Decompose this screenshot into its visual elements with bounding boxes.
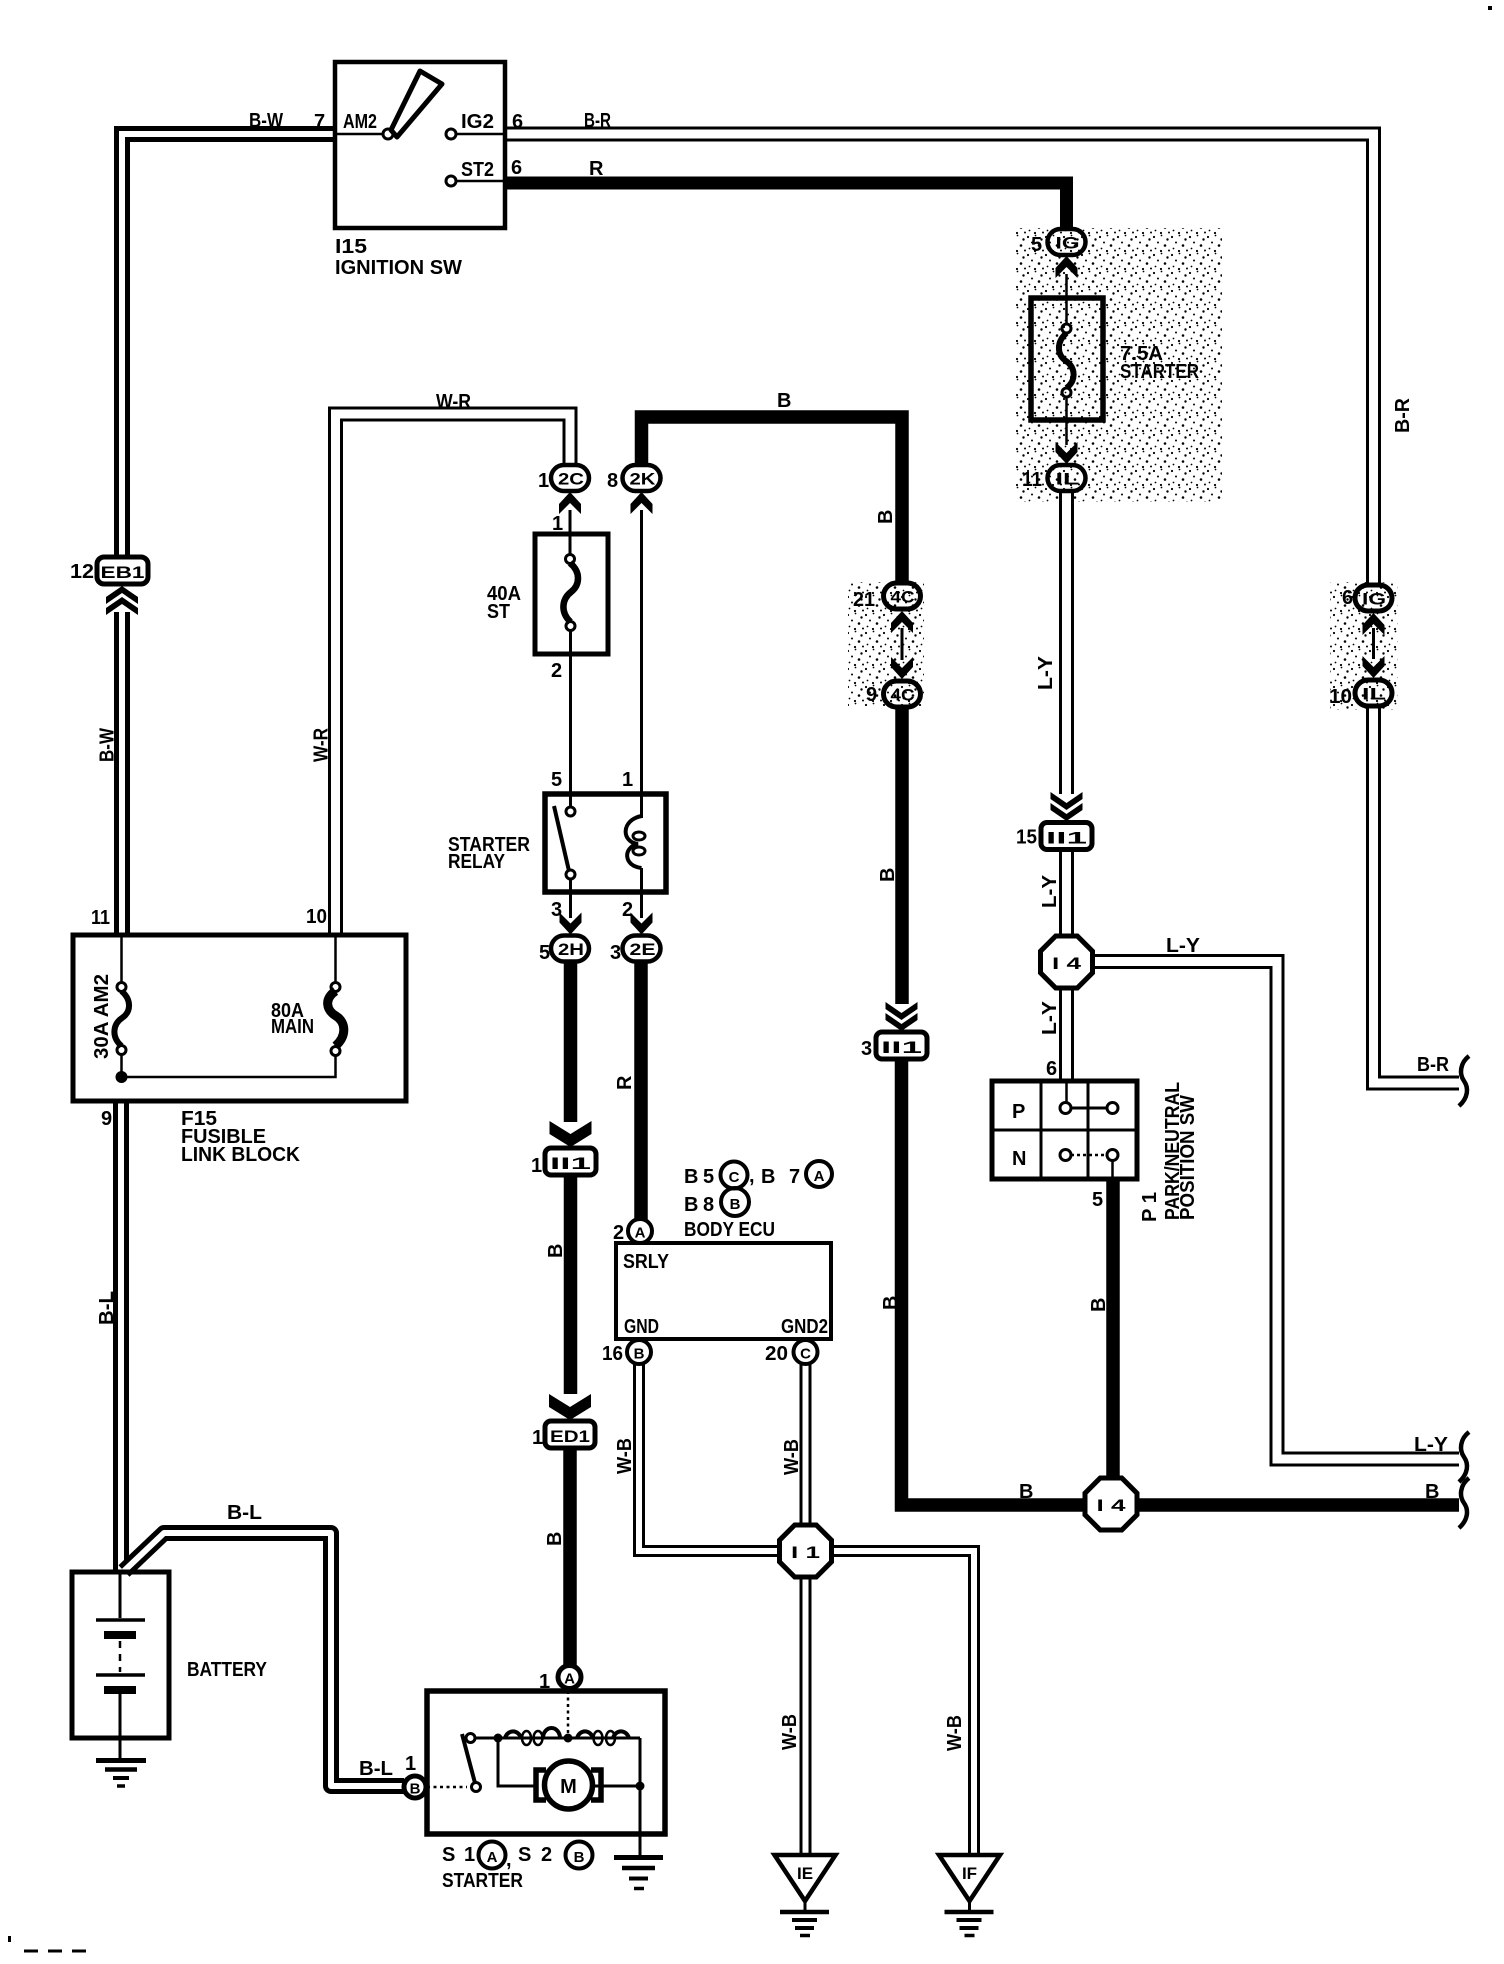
stray mark top right <box>1488 6 1492 10</box>
svg-text:16: 16 <box>602 1343 623 1365</box>
svg-text:6: 6 <box>1342 587 1353 609</box>
starter box <box>427 1691 665 1834</box>
connector oval IG right <box>1355 585 1392 611</box>
svg-text:IE: IE <box>797 1864 813 1883</box>
starter relay box <box>545 794 666 892</box>
svg-text:30A AM2: 30A AM2 <box>91 974 113 1059</box>
svg-text:1: 1 <box>405 1753 416 1775</box>
wire B thick: I4 right to edge <box>1137 1498 1459 1512</box>
svg-text:8: 8 <box>703 1194 714 1216</box>
svg-text:4C: 4C <box>891 687 915 705</box>
svg-text:STARTER: STARTER <box>1120 361 1199 383</box>
svg-text:S: S <box>518 1844 531 1866</box>
junction I1 octagon <box>780 1525 832 1577</box>
svg-text:POSITION SW: POSITION SW <box>1177 1095 1199 1220</box>
svg-text:B: B <box>875 510 897 524</box>
svg-text:1: 1 <box>538 470 549 492</box>
ground triangle IF <box>939 1855 1000 1901</box>
arrow down into 2E <box>631 913 653 935</box>
svg-text:5: 5 <box>1031 234 1042 256</box>
terminal ST2 <box>456 180 505 183</box>
continuation hook B <box>1459 1478 1469 1528</box>
connector II1 on B line mid <box>550 1121 592 1147</box>
ignition switch I15 box <box>335 62 505 228</box>
wire thin: relay switch to pin 3 <box>569 879 572 918</box>
svg-text:,: , <box>749 1165 755 1187</box>
wire B-W hollow: ignition AM2 to EB1 <box>122 134 335 557</box>
P/N switch pin 6 stub <box>1065 1081 1068 1102</box>
svg-text:1: 1 <box>539 1671 550 1693</box>
svg-text:B: B <box>410 1781 421 1798</box>
svg-text:B: B <box>777 390 791 412</box>
svg-text:6: 6 <box>512 111 523 133</box>
svg-text:LINK BLOCK: LINK BLOCK <box>181 1144 301 1166</box>
svg-text:W-B: W-B <box>779 1714 801 1750</box>
svg-text:5: 5 <box>551 769 562 791</box>
wire B thick: II1 to ED1 <box>564 1175 578 1394</box>
connector II1 on L-Y line <box>1051 792 1083 821</box>
connector oval IG top <box>1048 229 1086 255</box>
svg-text:I15: I15 <box>335 236 367 258</box>
svg-text:B: B <box>1019 1481 1033 1503</box>
svg-text:L-Y: L-Y <box>1166 935 1201 957</box>
svg-text:I 1: I 1 <box>791 1543 820 1562</box>
svg-text:W-B: W-B <box>614 1438 636 1474</box>
svg-text:A: A <box>635 1225 646 1242</box>
wire W-B hollow: I1 right and down to ground IF <box>830 1551 974 1854</box>
wire W-R hollow: fusible link pin 10 up and over to 2C <box>336 414 571 934</box>
svg-text:B: B <box>544 1532 566 1546</box>
svg-text:ST2: ST2 <box>461 159 494 181</box>
svg-text:IG: IG <box>1362 591 1386 609</box>
wire B-R hollow: IL connector down and right to edge <box>1374 707 1460 1083</box>
motor M <box>536 1770 546 1800</box>
connector oval 2C <box>551 465 589 491</box>
svg-text:11: 11 <box>91 907 110 929</box>
svg-text:1: 1 <box>531 1155 542 1177</box>
park/neutral position switch P1 box <box>992 1081 1137 1179</box>
connector oval IL right <box>1355 680 1392 706</box>
wire B thick: II1 down then right to junction I4 <box>902 1058 1086 1505</box>
svg-text:I 4: I 4 <box>1097 1496 1127 1515</box>
node junction in F15 <box>116 1071 128 1083</box>
svg-text:2K: 2K <box>630 471 656 489</box>
dotted link B to switch <box>427 1786 467 1789</box>
svg-text:B-L: B-L <box>227 1502 262 1524</box>
node coil junctions <box>494 1734 503 1743</box>
svg-text:20: 20 <box>765 1343 788 1365</box>
continuation hook L-Y <box>1459 1432 1469 1482</box>
wire B-R hollow: ignition IG2 right and down to IG connector <box>505 134 1374 584</box>
battery box <box>72 1572 169 1738</box>
fuse 7.5A STARTER box <box>1031 298 1103 420</box>
stipple patch around right IG-IL connectors <box>1330 582 1398 710</box>
body ECU pin 20 circle C <box>794 1340 818 1364</box>
relay coil <box>640 794 643 816</box>
svg-text:6: 6 <box>511 157 522 179</box>
svg-text:GND2: GND2 <box>781 1316 828 1338</box>
svg-text:A: A <box>487 1849 498 1866</box>
svg-text:B-R: B-R <box>1392 397 1414 433</box>
stipple patch around 7.5A starter fuse <box>1016 228 1222 502</box>
svg-text:1: 1 <box>622 769 633 791</box>
svg-text:S: S <box>442 1844 455 1866</box>
wire thin: 2K to starter relay pin 1 <box>640 510 643 818</box>
svg-text:7: 7 <box>314 111 325 133</box>
svg-text:B-W: B-W <box>97 728 119 762</box>
relay switch <box>569 794 572 807</box>
svg-text:P 1: P 1 <box>1139 1192 1161 1222</box>
svg-text:2H: 2H <box>558 941 584 959</box>
svg-text:3: 3 <box>610 942 621 964</box>
svg-text:21: 21 <box>853 589 875 611</box>
arrow down into IL <box>1056 442 1078 464</box>
svg-text:GND: GND <box>624 1316 659 1338</box>
svg-text:II1: II1 <box>550 1154 591 1173</box>
P/N contact row N <box>1060 1150 1071 1161</box>
svg-text:N: N <box>1012 1148 1026 1170</box>
svg-text:3: 3 <box>551 899 562 921</box>
svg-text:C: C <box>729 1169 740 1186</box>
svg-text:10: 10 <box>1329 686 1352 708</box>
connector EB1 <box>97 557 148 584</box>
continuation hook B-R <box>1459 1056 1469 1106</box>
connector ED1 <box>549 1394 591 1420</box>
svg-text:W-B: W-B <box>944 1715 966 1751</box>
svg-text:MAIN: MAIN <box>271 1016 314 1038</box>
svg-text:R: R <box>614 1075 636 1090</box>
fuse 7.5A element <box>1065 274 1068 325</box>
arrow down into 2H <box>560 913 582 935</box>
wire F15 internal <box>122 1055 336 1077</box>
svg-text:3: 3 <box>861 1038 872 1060</box>
svg-text:B-R: B-R <box>584 110 611 132</box>
svg-text:B-W: B-W <box>249 110 283 132</box>
svg-text:B-L: B-L <box>359 1758 393 1780</box>
svg-text:7: 7 <box>789 1166 800 1188</box>
P/N contact row P <box>1060 1103 1071 1114</box>
junction I4 octagon <box>1041 936 1093 988</box>
svg-text:9: 9 <box>101 1108 112 1130</box>
svg-text:B: B <box>761 1166 775 1188</box>
body ECU box <box>616 1243 831 1339</box>
ground at battery <box>119 1738 122 1758</box>
wire B-W hollow: EB1 to fusible link block pin 11 <box>114 612 130 934</box>
svg-text:5: 5 <box>1092 1189 1103 1211</box>
svg-text:STARTER: STARTER <box>442 1870 523 1892</box>
svg-text:BATTERY: BATTERY <box>187 1659 268 1681</box>
fuse 40A ST box <box>535 534 608 654</box>
svg-text:B: B <box>880 1296 902 1310</box>
svg-text:8: 8 <box>607 470 618 492</box>
svg-text:II1: II1 <box>881 1038 922 1057</box>
wire thin: 2C to 40A ST fuse <box>569 510 572 555</box>
svg-text:10: 10 <box>306 906 327 928</box>
svg-text:5: 5 <box>703 1166 714 1188</box>
svg-text:2C: 2C <box>558 471 584 489</box>
svg-text:IL: IL <box>1362 686 1386 704</box>
svg-text:I 4: I 4 <box>1052 954 1082 973</box>
fuse 30A AM2 <box>120 937 123 983</box>
svg-text:2: 2 <box>541 1844 552 1866</box>
connector II1 on B line right <box>886 1002 918 1031</box>
svg-text:IL: IL <box>1056 471 1080 489</box>
wire R thick: 2E down to body ECU SRLY pin 2 <box>634 961 648 1220</box>
starter terminal B circle <box>404 1776 426 1798</box>
double-head arrow between IG and IL right <box>1372 628 1375 659</box>
svg-text:6: 6 <box>1046 1058 1057 1080</box>
connector oval 2H <box>551 936 589 962</box>
body ECU pin 2 circle A <box>628 1219 652 1243</box>
svg-text:15: 15 <box>1016 827 1037 849</box>
svg-text:5: 5 <box>539 942 550 964</box>
svg-text:A: A <box>814 1168 825 1185</box>
svg-text:2: 2 <box>622 899 633 921</box>
svg-text:L-Y: L-Y <box>1414 1434 1449 1456</box>
svg-text:W-B: W-B <box>781 1439 803 1475</box>
svg-text:B: B <box>730 1196 741 1213</box>
fuse 80A MAIN <box>331 1047 340 1056</box>
wire L-Y hollow: IL connector down to II1 <box>1059 491 1074 794</box>
svg-text:II1: II1 <box>1046 829 1087 848</box>
wire L-Y hollow: I4 right and down to edge <box>1091 962 1459 1460</box>
svg-text:IGNITION SW: IGNITION SW <box>335 257 462 279</box>
wire B-L hollow: fusible link pin 9 to battery <box>113 1101 129 1570</box>
svg-text:IG2: IG2 <box>461 111 494 133</box>
ignition key wedge <box>391 71 442 137</box>
svg-text:IG: IG <box>1056 235 1080 253</box>
svg-text:W-R: W-R <box>436 391 471 413</box>
svg-text:P: P <box>1012 1101 1025 1123</box>
connector oval 2K <box>623 465 661 491</box>
svg-text:B: B <box>634 1346 645 1363</box>
wire B thick: 4C down to II1 <box>895 708 909 1004</box>
svg-text:R: R <box>589 158 604 180</box>
svg-text:L-Y: L-Y <box>1035 655 1057 690</box>
stipple patch around 4C junction connectors <box>848 582 924 706</box>
svg-text:ST: ST <box>487 601 510 623</box>
wire W-B hollow: ECU GND pin 16 down and right to I1 <box>639 1363 781 1551</box>
junction I4 octagon second <box>1085 1478 1137 1530</box>
svg-text:9: 9 <box>866 684 877 706</box>
wire B thick: ED1 down to starter terminal A <box>563 1448 577 1666</box>
wire W-B hollow: ECU GND2 pin 20 down to I1 <box>800 1363 812 1527</box>
wire R thick: ignition ST2 to IG connector <box>505 183 1067 229</box>
stray marks bottom left <box>8 1936 11 1942</box>
svg-text:M: M <box>560 1776 577 1798</box>
svg-text:2: 2 <box>613 1222 624 1244</box>
node motor-right junction <box>636 1782 645 1791</box>
arrow up into IG <box>1056 256 1078 278</box>
svg-text:BODY ECU: BODY ECU <box>684 1219 775 1241</box>
starter coil <box>475 1737 640 1740</box>
starter terminal A circle <box>558 1666 581 1689</box>
svg-text:IF: IF <box>962 1864 977 1883</box>
wire L-Y hollow: II1 down to junction I4 <box>1059 850 1074 937</box>
double-head arrow between 4C connectors <box>901 628 904 660</box>
wire B thick: 2H down to II1 <box>564 961 578 1122</box>
ground at starter <box>639 1786 642 1855</box>
svg-text:,: , <box>506 1849 512 1871</box>
svg-text:EB1: EB1 <box>101 563 145 582</box>
svg-text:ED1: ED1 <box>550 1427 590 1446</box>
svg-text:AM2: AM2 <box>343 111 377 133</box>
svg-text:L-Y: L-Y <box>1039 1000 1061 1035</box>
svg-text:1: 1 <box>532 1427 543 1449</box>
svg-text:2: 2 <box>551 660 562 682</box>
svg-text:W-R: W-R <box>311 728 333 762</box>
connector oval IL top <box>1048 465 1086 491</box>
svg-text:L-Y: L-Y <box>1039 874 1061 908</box>
svg-text:B: B <box>1425 1481 1439 1503</box>
wire thin: 40A ST fuse to starter relay pin 5 <box>569 630 572 807</box>
wire B thick: park-neutral pin 5 down to I4 <box>1106 1179 1120 1479</box>
terminal IG2 <box>456 133 505 136</box>
P/N switch pin 5 stub <box>1111 1161 1114 1179</box>
svg-text:1: 1 <box>552 513 563 535</box>
fusible link block F15 box <box>73 935 406 1101</box>
wire B thick: 2K up over and down to 4C <box>642 417 903 583</box>
body ECU pin 16 circle B <box>627 1340 651 1364</box>
wire coil end down to motor right <box>639 1738 642 1786</box>
connector oval 4C upper <box>884 583 921 609</box>
starter switch <box>466 1734 475 1743</box>
svg-text:B: B <box>877 868 899 882</box>
dotted link A to coil tap <box>567 1691 570 1733</box>
wire to motor left <box>498 1738 535 1786</box>
wire B-L hollow: battery to starter terminal B <box>124 1533 404 1786</box>
terminal AM2 <box>335 133 383 136</box>
wire thin: relay coil to pin 2 <box>640 868 643 918</box>
wire L-Y hollow: I4 down to park-neutral switch pin 6 <box>1059 987 1074 1081</box>
svg-text:A: A <box>564 1671 575 1688</box>
arrow up into 2K <box>631 492 653 514</box>
svg-text:B: B <box>1088 1298 1110 1312</box>
svg-text:2E: 2E <box>630 941 656 959</box>
svg-text:4C: 4C <box>891 589 915 607</box>
svg-text:11: 11 <box>1022 469 1042 491</box>
svg-text:1: 1 <box>464 1844 475 1866</box>
svg-text:B: B <box>574 1849 585 1866</box>
battery symbol <box>119 1574 122 1618</box>
svg-text:12: 12 <box>70 561 94 583</box>
svg-text:C: C <box>800 1346 811 1363</box>
svg-text:B: B <box>684 1166 698 1188</box>
arrow up into EB1 <box>106 586 138 615</box>
wire W-B hollow: I1 down to ground IE <box>800 1576 812 1854</box>
svg-text:B-R: B-R <box>1417 1054 1450 1076</box>
ground triangle IE <box>775 1855 836 1901</box>
arrow up into 2C <box>559 492 581 514</box>
svg-text:RELAY: RELAY <box>448 851 506 873</box>
connector oval 2E <box>623 936 661 962</box>
svg-text:B: B <box>545 1244 567 1258</box>
svg-text:SRLY: SRLY <box>623 1251 670 1273</box>
fuse 40A ST element <box>566 555 575 564</box>
svg-text:B: B <box>684 1194 698 1216</box>
connector oval 4C lower <box>884 681 921 707</box>
svg-text:B-L: B-L <box>96 1291 118 1325</box>
